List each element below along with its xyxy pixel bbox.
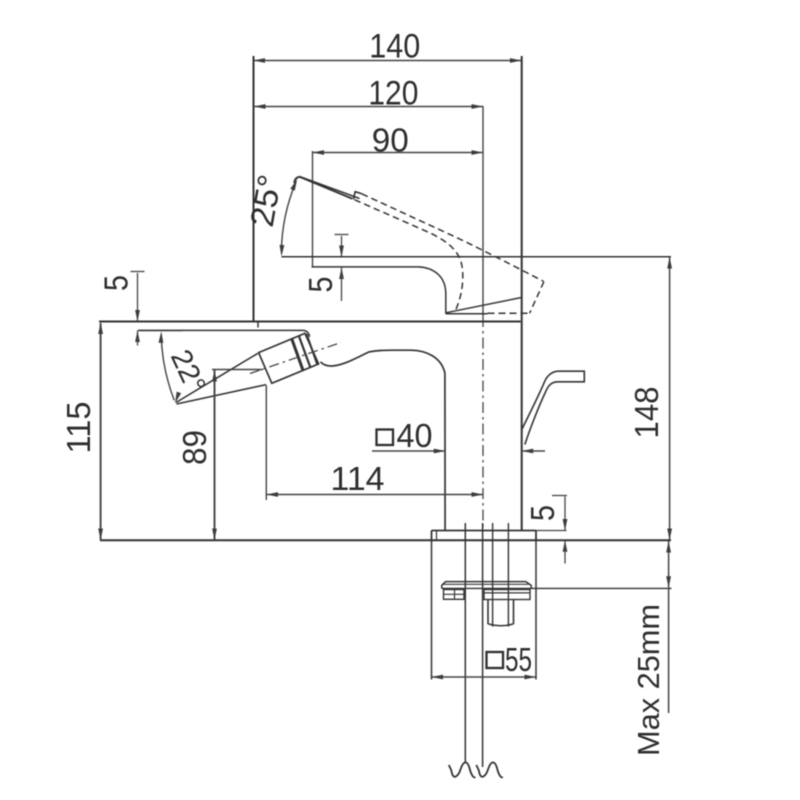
svg-text:115: 115	[60, 402, 97, 454]
svg-text:5: 5	[98, 275, 135, 291]
raised lever grip step (notch)	[353, 192, 361, 200]
svg-text:89: 89	[176, 430, 213, 465]
dimension 89	[214, 370, 216, 540]
extension line x=253.5 (left of 140/120)	[253, 56, 255, 322]
dimension Max 25mm	[668, 541, 670, 588]
threaded shank	[492, 523, 494, 627]
dimension 90	[313, 152, 484, 154]
raised lever end cap (dashed)	[530, 282, 544, 314]
blade lower line (main view)	[138, 330, 310, 336]
dimension 40 square	[377, 430, 394, 446]
lever arm lower edge	[177, 385, 267, 404]
plate top extension (for 5)	[536, 530, 567, 532]
svg-text:5: 5	[524, 505, 561, 521]
raised lever upper edge (dashed)	[362, 194, 544, 281]
supply pipe right edge	[482, 523, 484, 767]
lever arm upper edge	[176, 353, 258, 402]
lever grip outline	[259, 333, 319, 383]
horseshoe washer	[442, 582, 531, 589]
head slant edge (raised view)	[446, 298, 521, 313]
counter top line / bottom reference	[100, 539, 671, 541]
washer bottom line / Max25 extension	[442, 587, 672, 589]
svg-text:Max 25mm: Max 25mm	[631, 604, 666, 756]
supply pipe left edge	[464, 523, 466, 762]
washer left block	[444, 590, 465, 600]
svg-text:148: 148	[628, 387, 665, 439]
pipe break zigzag	[449, 762, 476, 777]
washer right block	[484, 590, 530, 600]
svg-text:40: 40	[397, 417, 433, 454]
blade top line / 115 and 5 reference	[99, 320, 521, 322]
svg-text:140: 140	[369, 28, 420, 66]
mounting nut	[487, 600, 489, 625]
deck plate	[432, 530, 537, 532]
drain control rod	[522, 371, 585, 444]
stub below blade line at x=258	[257, 322, 259, 328]
raised lever lower edge and hub curve (dashed)	[355, 200, 463, 313]
svg-text:120: 120	[368, 74, 418, 112]
lever grip rings	[292, 339, 303, 370]
dimension 55 square	[432, 676, 537, 678]
spout lower surface and head (raised view)	[312, 267, 446, 314]
extension line x=483 / body centerline	[482, 106, 484, 316]
dimension 25 degrees	[281, 182, 296, 251]
svg-text:90: 90	[372, 122, 409, 159]
dimension 115	[100, 323, 102, 540]
svg-text:5: 5	[302, 277, 339, 293]
dimension 5 (plate thickness)	[552, 495, 567, 497]
dimension 140	[254, 60, 522, 62]
dimension 22 degrees	[161, 335, 174, 400]
spout upper surface line (raised view) / 148 top extension	[282, 256, 672, 258]
rough-in box (55 square)	[431, 540, 433, 679]
dimension 120	[254, 106, 483, 108]
dimension 5 (left, blade thickness)	[131, 271, 145, 273]
raised lever arm edge (solid, with tip hook)	[294, 177, 352, 199]
lever centerline (dash-dot)	[250, 343, 341, 374]
body right edge / 140 right extension	[521, 56, 523, 531]
svg-text:114: 114	[331, 460, 385, 497]
dimension 5 (spout tip thickness)	[335, 234, 349, 236]
spout hump curve (main view)	[321, 350, 446, 530]
head base line (raised view)	[446, 313, 488, 315]
svg-text:55: 55	[505, 641, 532, 678]
extension line x=312.5	[312, 151, 314, 267]
dimension 148	[669, 257, 671, 540]
dimension 114	[267, 494, 484, 496]
